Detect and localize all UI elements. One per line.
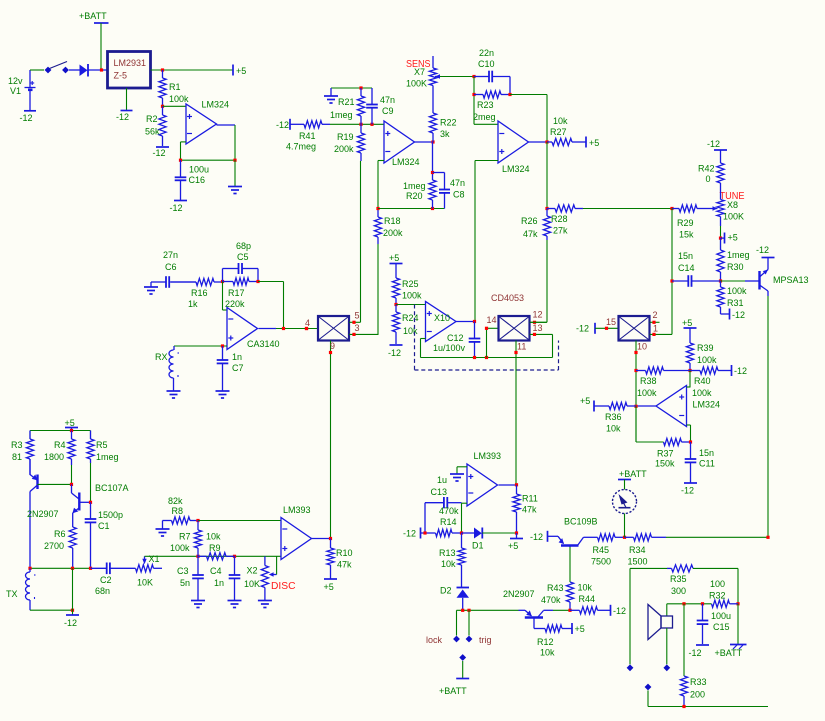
- svg-text:10K: 10K: [244, 579, 260, 589]
- svg-text:100u: 100u: [189, 165, 209, 175]
- svg-text:+BATT: +BATT: [619, 469, 647, 479]
- wire R29 node down to pin1: [671, 209, 673, 335]
- diode D1: [462, 532, 475, 534]
- svg-text:C3: C3: [177, 566, 189, 576]
- svg-text:1u/100v: 1u/100v: [433, 343, 466, 353]
- svg-text:100: 100: [710, 579, 725, 589]
- wire U1a output: [415, 141, 434, 143]
- wire U4a minus: [462, 502, 468, 504]
- terminal +5 (regulator output): [232, 65, 234, 76]
- svg-text:R40: R40: [694, 376, 711, 386]
- svg-text:R44: R44: [579, 594, 596, 604]
- svg-text:R37: R37: [657, 449, 674, 459]
- resistor R5: [90, 431, 92, 440]
- node R1/R2 divider: [161, 105, 164, 108]
- svg-text:200k: 200k: [383, 228, 403, 238]
- node R16/R17/C5: [221, 280, 224, 283]
- svg-text:5n: 5n: [180, 578, 190, 588]
- svg-text:100k: 100k: [170, 543, 190, 553]
- terminal -12 below R2: [156, 146, 169, 148]
- svg-text:C1: C1: [98, 521, 110, 531]
- svg-text:R11: R11: [522, 494, 538, 504]
- svg-text:R17: R17: [228, 288, 245, 298]
- resistor R18: [377, 209, 379, 218]
- power net +BATT (top): [94, 22, 109, 24]
- wire divider to op-amp: [163, 105, 187, 107]
- transistor Q2 BC107A: [71, 484, 73, 493]
- svg-text:470k: 470k: [439, 506, 459, 516]
- resistor R42: [720, 150, 722, 163]
- svg-text:C4: C4: [210, 566, 222, 576]
- svg-text:+5: +5: [682, 318, 692, 328]
- svg-text:68p: 68p: [236, 241, 251, 251]
- resistor R12: [545, 625, 562, 632]
- resistor R32: [711, 603, 713, 605]
- transistor Q3 2N2907: [519, 609, 526, 611]
- svg-text:-12: -12: [388, 348, 401, 358]
- switch U3a (CD4053 section): [318, 316, 349, 341]
- svg-text:1500: 1500: [628, 557, 648, 567]
- op-amp U6a LM393 (DISC comparator): [281, 518, 312, 560]
- wire C14 to MPSA13 base: [721, 280, 746, 282]
- svg-text:CA3140: CA3140: [247, 339, 280, 349]
- svg-text:R43: R43: [547, 583, 564, 593]
- resistor R4: [71, 431, 73, 440]
- svg-text:R24: R24: [402, 313, 419, 323]
- resistor R34: [634, 534, 652, 541]
- node R39/R38/R40: [688, 369, 691, 372]
- svg-text:trig: trig: [479, 635, 492, 645]
- svg-text:2: 2: [653, 310, 658, 320]
- svg-text:82k: 82k: [168, 496, 183, 506]
- pin 12 wire: [530, 321, 547, 323]
- svg-text:-12: -12: [707, 139, 720, 149]
- svg-text:-12: -12: [153, 148, 166, 158]
- svg-text:R3: R3: [11, 440, 23, 450]
- dashed control lines: [414, 305, 416, 371]
- osc bottom rail: [30, 567, 91, 569]
- capacitor C15: [702, 604, 704, 621]
- connector trig: [466, 636, 471, 641]
- wire U1a minus to R18 node: [378, 160, 384, 162]
- terminal -12 below C11: [684, 482, 697, 484]
- svg-text:RX: RX: [155, 352, 168, 362]
- svg-text:R27: R27: [550, 127, 567, 137]
- osc +5 rail: [30, 430, 91, 432]
- svg-text:-12: -12: [170, 203, 183, 213]
- op-amp U1a LM324: [384, 121, 415, 163]
- svg-text:R39: R39: [697, 343, 714, 353]
- wire U1b plus from C12: [475, 160, 498, 162]
- resistor R6: [72, 526, 74, 528]
- node R37/C11: [689, 440, 692, 443]
- node C5/R17 right: [256, 280, 259, 283]
- battery V1: [29, 70, 31, 87]
- capacitor C7: [222, 346, 224, 360]
- svg-text:10k: 10k: [553, 116, 568, 126]
- svg-text:C13: C13: [431, 487, 448, 497]
- svg-text:1u: 1u: [437, 475, 447, 485]
- svg-text:200k: 200k: [334, 144, 354, 154]
- power switch: [45, 67, 50, 72]
- wire U1b out down to R26: [546, 142, 548, 209]
- indicator LED (meter symbol): [613, 490, 637, 514]
- terminal -12 below C16: [174, 200, 187, 202]
- svg-text:+5: +5: [508, 541, 518, 551]
- svg-text:12: 12: [533, 310, 543, 320]
- svg-text:2meg: 2meg: [473, 112, 496, 122]
- svg-text:15n: 15n: [699, 448, 714, 458]
- resistor R2: [162, 106, 164, 115]
- terminal -12 after R44: [610, 605, 612, 616]
- svg-text:12v: 12v: [8, 76, 23, 86]
- connector lock: [454, 636, 459, 641]
- resistor R38: [636, 370, 646, 372]
- pot X7 100K (SENS): [432, 56, 434, 68]
- resistor R11: [516, 485, 518, 494]
- pot X8 100K (TUNE): [717, 200, 724, 217]
- svg-text:X8: X8: [727, 200, 738, 210]
- svg-text:LM324: LM324: [693, 400, 721, 410]
- capacitor C3: [197, 556, 199, 575]
- resistor R10: [330, 539, 332, 549]
- node R8/R7: [196, 519, 199, 522]
- resistor R29: [672, 208, 679, 210]
- svg-text:R1: R1: [169, 82, 181, 92]
- svg-text:47n: 47n: [450, 178, 465, 188]
- terminal -12 left (R41): [289, 119, 291, 130]
- svg-text:R30: R30: [727, 262, 744, 272]
- svg-text:R41: R41: [299, 131, 316, 141]
- wire X10 minus loop: [421, 338, 426, 340]
- svg-text:10k: 10k: [206, 532, 221, 542]
- terminal +5 before R36: [593, 401, 595, 412]
- svg-text:-12: -12: [681, 486, 694, 496]
- capacitor C16: [180, 160, 182, 177]
- svg-text:BC107A: BC107A: [95, 483, 129, 493]
- svg-text:R29: R29: [677, 218, 694, 228]
- resistor R31: [720, 281, 722, 287]
- svg-text:15: 15: [606, 317, 616, 327]
- svg-text:V1: V1: [10, 86, 21, 96]
- svg-text:R32: R32: [709, 591, 726, 601]
- node R25/R24: [394, 303, 397, 306]
- pot X2 10K (DISC): [264, 556, 266, 565]
- pin 11 wire down: [515, 341, 517, 485]
- svg-text:-12: -12: [732, 310, 745, 320]
- capacitor C10: [474, 76, 489, 78]
- svg-text:47k: 47k: [522, 505, 537, 515]
- svg-text:C8: C8: [453, 190, 465, 200]
- svg-text:X2: X2: [247, 566, 258, 576]
- svg-text:10k: 10k: [441, 559, 456, 569]
- svg-text:R20: R20: [406, 191, 423, 201]
- svg-text:R36: R36: [605, 412, 622, 422]
- svg-text:LM324: LM324: [392, 157, 420, 167]
- svg-text:R16: R16: [191, 288, 208, 298]
- svg-text:R8: R8: [172, 506, 184, 516]
- svg-text:100k: 100k: [637, 388, 657, 398]
- svg-text:-12: -12: [576, 324, 589, 334]
- svg-text:-12: -12: [403, 529, 416, 539]
- switch U3c (CD4053 section): [619, 316, 650, 341]
- svg-text:R12: R12: [537, 637, 554, 647]
- terminal -12 before R14: [420, 528, 422, 539]
- node R11 bottom: [515, 531, 518, 534]
- svg-text:100k: 100k: [727, 286, 747, 296]
- svg-text:0: 0: [706, 174, 711, 184]
- pot X1 10K: [136, 565, 154, 572]
- svg-text:15n: 15n: [678, 251, 693, 261]
- svg-text:R5: R5: [96, 440, 108, 450]
- pin 3 wire: [349, 333, 379, 335]
- terminal -12 below R24: [390, 344, 403, 346]
- svg-text:100K: 100K: [723, 212, 744, 222]
- svg-text:X1: X1: [149, 554, 160, 564]
- pin 10 wire down: [635, 341, 637, 443]
- ground left of C6: [150, 282, 152, 287]
- svg-text:LM324: LM324: [202, 100, 230, 110]
- wire U1d minus input stub: [687, 424, 691, 426]
- svg-text:R9: R9: [209, 543, 221, 553]
- resistor R14: [421, 532, 436, 534]
- svg-text:R28: R28: [551, 214, 568, 224]
- svg-text:3k: 3k: [440, 129, 450, 139]
- wire R28 to R29: [583, 208, 672, 210]
- svg-text:1: 1: [653, 324, 658, 334]
- resistor R26: [546, 209, 548, 217]
- terminal +5 below R10: [324, 578, 337, 580]
- terminal -12 below LM2931: [126, 88, 128, 110]
- pin 13 wire: [530, 333, 553, 335]
- wire R19 to pin5: [360, 161, 362, 322]
- svg-text:1meg: 1meg: [96, 452, 119, 462]
- resistor R39: [689, 342, 691, 343]
- wire U1 minus feedback: [181, 141, 187, 143]
- switch U3b (CD4053 section): [499, 316, 530, 341]
- node R43/R44/Q3: [568, 609, 571, 612]
- terminal +BATT above LED: [618, 479, 631, 481]
- node Q1 base / R4 / Q2 collector: [70, 483, 73, 486]
- resistor R1: [162, 70, 164, 78]
- resistor R25: [395, 277, 397, 278]
- pin 9 wire down: [330, 341, 332, 539]
- wire R20/C8 bottom rail: [378, 208, 445, 210]
- wire pin4 from CA3140: [305, 327, 308, 330]
- resistor R40: [690, 370, 700, 372]
- svg-text:CD4053: CD4053: [491, 293, 524, 303]
- wire X7 wiper: [440, 76, 474, 78]
- node +BATT junction: [100, 68, 103, 71]
- svg-text:R14: R14: [440, 517, 457, 527]
- svg-text:7500: 7500: [591, 557, 611, 567]
- svg-text:Z-5: Z-5: [114, 71, 128, 81]
- svg-text:47k: 47k: [523, 229, 538, 239]
- wire wiper down to U1b minus: [473, 77, 475, 125]
- terminal -12 at pin 15: [594, 323, 596, 334]
- wire TX bottom to -12: [30, 609, 73, 611]
- capacitor C6: [151, 281, 166, 283]
- svg-text:R22: R22: [440, 118, 457, 128]
- svg-text:C14: C14: [678, 263, 695, 273]
- wire to X10 plus: [396, 304, 426, 306]
- svg-text:C6: C6: [165, 262, 177, 272]
- resistor R21: [360, 88, 362, 96]
- svg-text:R25: R25: [402, 279, 419, 289]
- svg-text:DISC: DISC: [271, 580, 296, 592]
- svg-text:R19: R19: [337, 132, 354, 142]
- resistor R37: [663, 441, 665, 443]
- capacitor C11: [690, 442, 692, 459]
- resistor R3: [29, 431, 31, 440]
- wire pin10 column to R37: [635, 406, 637, 442]
- svg-text:R42: R42: [698, 164, 715, 174]
- resistor R17: [223, 281, 234, 283]
- svg-text:MPSA13: MPSA13: [773, 275, 809, 285]
- wire U1b output: [529, 141, 548, 143]
- svg-text:+5: +5: [575, 624, 585, 634]
- svg-text:+BATT: +BATT: [79, 11, 107, 21]
- svg-text:2N2907: 2N2907: [27, 509, 59, 519]
- terminal -12 above MPSA13: [762, 257, 775, 259]
- svg-text:-12: -12: [756, 245, 769, 255]
- connector common: [460, 655, 465, 660]
- wire feedback to U1b output: [510, 94, 547, 96]
- svg-text:BC109B: BC109B: [564, 517, 598, 527]
- node R23/C10 right: [508, 93, 511, 96]
- pin 1 wire: [650, 333, 673, 335]
- wire U1d output: [636, 405, 656, 407]
- wire U6a output: [312, 538, 331, 540]
- svg-text:R45: R45: [593, 545, 610, 555]
- svg-text:2700: 2700: [44, 541, 64, 551]
- svg-text:100k: 100k: [402, 291, 422, 301]
- svg-text:D2: D2: [440, 586, 452, 596]
- svg-text:100K: 100K: [406, 79, 427, 89]
- svg-text:C16: C16: [189, 175, 206, 185]
- op-amp U1d LM324 (mirrored): [656, 386, 687, 427]
- pin 5 wire: [349, 321, 361, 323]
- wire X10 output: [456, 321, 475, 323]
- terminal +5 at X8 bottom: [719, 237, 722, 240]
- svg-text:2N2907: 2N2907: [503, 589, 535, 599]
- svg-text:3: 3: [355, 323, 360, 333]
- diode D2: [457, 587, 470, 589]
- svg-text:+BATT: +BATT: [715, 648, 743, 658]
- resistor R9: [198, 555, 207, 557]
- wire MPSA13 emitter down (long right rail): [767, 296, 769, 537]
- svg-text:100k: 100k: [692, 388, 712, 398]
- svg-text:R26: R26: [521, 216, 538, 226]
- svg-text:27k: 27k: [553, 226, 568, 236]
- wire R8 node to LM393: [198, 520, 281, 522]
- ground below C3: [191, 600, 205, 602]
- svg-text:+5: +5: [236, 66, 246, 76]
- wire battery to switch: [30, 69, 44, 71]
- resistor R28: [547, 208, 555, 210]
- wire R21/C9 top: [331, 87, 372, 89]
- svg-text:C2: C2: [100, 575, 112, 585]
- terminal +BATT right: [737, 604, 739, 644]
- capacitor C2: [91, 567, 107, 569]
- svg-text:81: 81: [12, 452, 22, 462]
- wire +5 rail from regulator: [151, 69, 234, 71]
- op-amp X10 (buffer): [426, 302, 457, 342]
- sample-hold rail y358: [421, 357, 553, 359]
- node R18 top: [376, 207, 379, 210]
- svg-text:+5: +5: [324, 582, 334, 592]
- resistor R13: [461, 533, 463, 548]
- terminal -12 below V1: [24, 110, 36, 112]
- svg-text:R34: R34: [629, 545, 646, 555]
- svg-text:10k: 10k: [578, 583, 593, 593]
- svg-text:LM2931: LM2931: [114, 58, 147, 68]
- node LED/R45/R34: [623, 536, 626, 539]
- resistor R45: [598, 534, 616, 541]
- speaker mix rail: [667, 603, 712, 605]
- svg-text:27n: 27n: [163, 250, 178, 260]
- capacitor C4: [234, 556, 236, 575]
- svg-text:13: 13: [533, 323, 543, 333]
- transistor Q1 2N2907: [29, 459, 31, 475]
- resistor R20: [432, 142, 434, 180]
- svg-text:-12: -12: [64, 618, 77, 628]
- svg-text:R35: R35: [670, 574, 687, 584]
- svg-text:47k: 47k: [337, 560, 352, 570]
- op-amp U2 CA3140: [227, 308, 258, 350]
- svg-text:R21: R21: [338, 97, 355, 107]
- svg-text:+5: +5: [65, 418, 75, 428]
- terminal -12 before BC109B: [547, 531, 549, 542]
- svg-text:X10: X10: [434, 313, 450, 323]
- svg-text:R4: R4: [54, 440, 66, 450]
- svg-text:-12: -12: [276, 120, 289, 130]
- capacitor C8: [433, 172, 445, 174]
- capacitor C14: [672, 280, 688, 282]
- svg-text:15k: 15k: [679, 230, 694, 240]
- node R1 top: [161, 68, 164, 71]
- pin 2 stub: [650, 321, 660, 323]
- resistor R7: [197, 521, 199, 531]
- wire R41 node: [330, 123, 384, 125]
- svg-text:10k: 10k: [606, 424, 621, 434]
- svg-text:14: 14: [487, 315, 497, 325]
- capacitor C9: [371, 88, 373, 105]
- svg-text:+BATT: +BATT: [439, 686, 467, 696]
- wire U4a output: [499, 484, 517, 486]
- svg-text:1n: 1n: [214, 578, 224, 588]
- wire CA3140 feedback: [258, 281, 284, 283]
- svg-text:LM393: LM393: [474, 451, 502, 461]
- svg-text:R23: R23: [477, 100, 494, 110]
- svg-text:lock: lock: [426, 635, 443, 645]
- svg-text:R7: R7: [179, 532, 191, 542]
- svg-text:470k: 470k: [541, 595, 561, 605]
- svg-text:R38: R38: [640, 376, 657, 386]
- jack contacts: [627, 665, 632, 670]
- resistor R41: [290, 123, 304, 125]
- wire U4a plus to ground: [457, 466, 467, 468]
- resistor R23: [474, 94, 483, 96]
- diode D3 (reverse protection): [80, 65, 88, 77]
- svg-text:C9: C9: [382, 106, 394, 116]
- speaker SP1: [666, 604, 668, 616]
- svg-text:1800: 1800: [44, 452, 64, 462]
- transistor Q5 MPSA13: [745, 280, 760, 282]
- svg-text:-12: -12: [530, 532, 543, 542]
- node R14/D1/R13/C13: [460, 531, 463, 534]
- svg-text:R10: R10: [336, 548, 353, 558]
